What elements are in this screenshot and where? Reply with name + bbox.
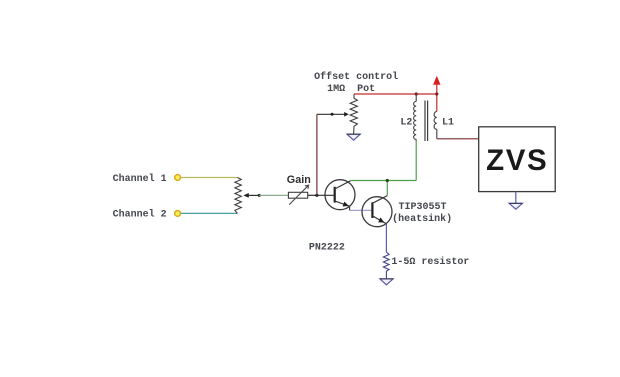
svg-text:Channel 2: Channel 2: [113, 209, 167, 221]
svg-text:Channel 1: Channel 1: [113, 173, 167, 185]
svg-text:PN2222: PN2222: [309, 243, 345, 254]
svg-text:Offset control: Offset control: [314, 71, 398, 83]
svg-text:TIP3055T: TIP3055T: [399, 202, 447, 213]
svg-text:L1: L1: [442, 117, 454, 128]
svg-text:L2: L2: [400, 117, 412, 128]
svg-text:ZVS: ZVS: [486, 144, 548, 177]
svg-text:Gain: Gain: [287, 174, 311, 186]
svg-text:(heatsink): (heatsink): [392, 213, 452, 225]
svg-text:1-5Ω resistor: 1-5Ω resistor: [391, 256, 469, 268]
svg-text:1MΩ Pot: 1MΩ Pot: [327, 84, 375, 95]
